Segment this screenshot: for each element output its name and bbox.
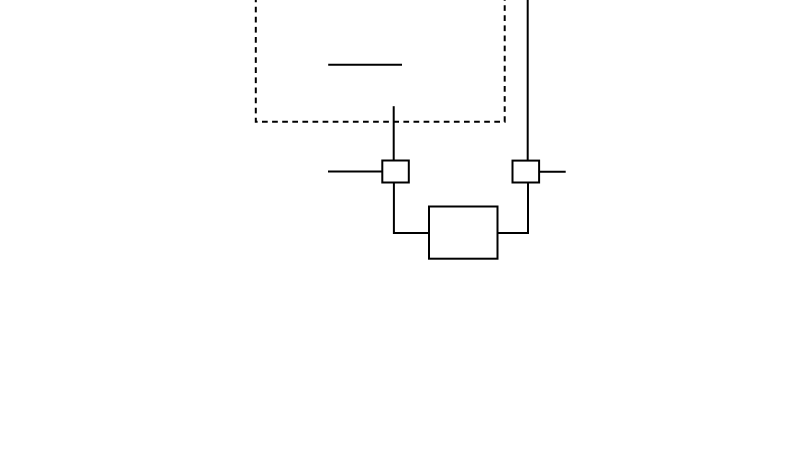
wire (solid segment inside dashed box): [328, 64, 402, 66]
block U1 (center rectangle): [429, 207, 498, 259]
wire (left stub into port P1): [328, 171, 382, 173]
port P1 (left square terminal): [382, 161, 409, 183]
wire (port P1 bottom to block U1 left pin): [394, 183, 429, 234]
wire (long vertical from top edge down to port P2): [527, 0, 529, 161]
wire (port P2 bottom to block U1 right pin): [498, 183, 529, 234]
subcircuit boundary (dashed box, clipped at top): [256, 0, 505, 122]
wire (from inside box down to port P1): [393, 106, 395, 160]
wire (right stub out of port P2): [539, 171, 566, 173]
port P2 (right square terminal): [513, 161, 540, 183]
